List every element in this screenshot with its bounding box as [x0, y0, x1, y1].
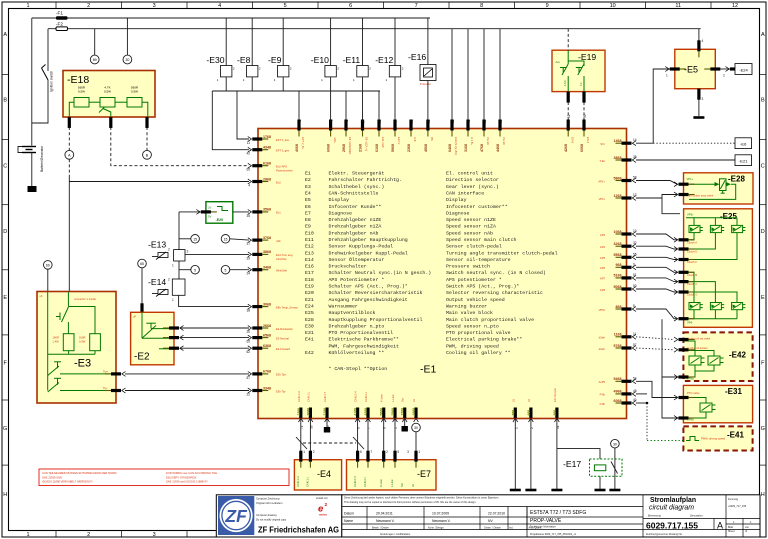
pin E1 top 4568	[426, 120, 429, 137]
wire E30 up to bus	[225, 18, 227, 66]
pin E1 bottom 4168	[355, 408, 360, 423]
svg-text:20.04.2011: 20.04.2011	[376, 512, 393, 516]
svg-text:20: 20	[246, 330, 250, 334]
svg-text:2868: 2868	[263, 177, 271, 181]
title block: main table	[342, 495, 760, 537]
node 30 circle (E17)	[611, 439, 620, 448]
wire bus drop to E1 pin 4068	[298, 91, 300, 129]
wire E1 to E25 pin	[636, 257, 677, 259]
pin E1 bottom 1668	[414, 408, 419, 423]
wire E1 CAN2L down to E7	[367, 417, 369, 460]
wire E1 to E25 pin	[636, 234, 677, 240]
svg-text:A: A	[761, 32, 765, 38]
svg-text:Drehwinkelgeber Kuppl-Pedal: Drehwinkelgeber Kuppl-Pedal	[329, 250, 408, 256]
svg-text:E30: E30	[305, 323, 314, 329]
svg-text:En2: En2	[276, 180, 281, 184]
svg-text:-F1: -F1	[56, 11, 63, 16]
svg-text:10.07.2009: 10.07.2009	[432, 512, 449, 516]
svg-text:5168: 5168	[614, 274, 622, 278]
wire E9 down to bus	[282, 77, 284, 91]
svg-text:Output vehicle speed: Output vehicle speed	[446, 297, 505, 303]
mechanical link between switches (dashed)	[303, 442, 356, 444]
pin E1 left 3868	[248, 252, 269, 257]
diagnose connector E7	[347, 460, 437, 490]
svg-text:CAN TEILNEHMER MÜSSEN ENTSPREC: CAN TEILNEHMER MÜSSEN ENTSPRECHEND DER N…	[42, 471, 117, 475]
display E5	[675, 49, 716, 88]
svg-text:4: 4	[394, 121, 398, 123]
svg-text:E25: E25	[305, 310, 314, 316]
svg-text:FOR WIRING use CAN ACCORDING T: FOR WIRING use CAN ACCORDING THE	[166, 471, 217, 475]
supply wires dropping to E1 top	[451, 29, 453, 129]
svg-text:Neumann V.: Neumann V.	[432, 519, 451, 523]
pin E1 top 3168	[466, 120, 469, 137]
wire E19 top dashed to bus	[567, 29, 569, 51]
speed sensor E30	[206, 55, 235, 82]
terminated stub pin	[404, 417, 406, 426]
pin E1 top 4468	[498, 120, 501, 137]
green wiring inside E18	[69, 102, 74, 116]
wire battery to ground	[31, 153, 33, 187]
svg-text:12: 12	[567, 114, 571, 118]
svg-text:0.9W: 0.9W	[79, 340, 86, 344]
node 69 circle above E3	[44, 261, 53, 270]
wire E1 to E25 pin	[636, 309, 677, 319]
svg-text:11: 11	[247, 141, 251, 145]
svg-text:-F2: -F2	[56, 22, 63, 27]
svg-text:E42: E42	[305, 350, 314, 356]
svg-text:1: 1	[303, 450, 305, 454]
svg-text:Drehzahlgeber n1ZA: Drehzahlgeber n1ZA	[329, 224, 382, 230]
svg-text:7: 7	[415, 3, 418, 9]
svg-text:3868: 3868	[614, 156, 622, 160]
svg-text:22: 22	[246, 393, 250, 397]
svg-text:11: 11	[633, 332, 637, 336]
svg-text:PROP-VALVE: PROP-VALVE	[530, 518, 562, 524]
svg-text:Tip-: Tip-	[103, 386, 108, 390]
svg-text:Schalter Reversiercharakterist: Schalter Reversiercharakteristik	[329, 290, 423, 296]
svg-text:5068: 5068	[614, 285, 622, 289]
svg-text:SCr: SCr	[600, 142, 605, 146]
svg-text:0.5W: 0.5W	[78, 90, 85, 94]
wires E1 4968/6068 to E41 via dotted link	[636, 393, 647, 395]
pin E18:2	[109, 117, 112, 128]
svg-text:6168: 6168	[375, 144, 379, 152]
wire E1 1268 to E28/E25	[636, 198, 680, 214]
switch Tip+	[54, 361, 61, 363]
svg-text:CAN 1 L: CAN 1 L	[306, 391, 310, 402]
svg-text:2: 2	[325, 502, 328, 508]
svg-text:kUeh: kUeh	[599, 336, 606, 340]
svg-text:Speed sensor main clutch: Speed sensor main clutch	[446, 237, 517, 243]
pin E1 top 5968	[393, 120, 396, 137]
pin E1 left 3068	[248, 304, 269, 309]
svg-text:T-Ex: T-Ex	[599, 159, 605, 163]
svg-text:-E21: -E21	[739, 159, 748, 164]
svg-text:1168: 1168	[614, 333, 622, 337]
wire E5 pin1 to E1 pin 1468	[653, 69, 675, 143]
wire E1 CAN2H down to E7	[357, 417, 359, 460]
resistor R1 560R	[74, 98, 89, 108]
svg-text:EFT V_B+: EFT V_B+	[301, 137, 305, 150]
pin E1 bottom 568	[555, 408, 560, 423]
svg-text:3: 3	[407, 450, 409, 454]
svg-text:VG 30: VG 30	[502, 137, 506, 145]
wire E14 to E1 pin 3068	[179, 295, 249, 306]
svg-text:5V: 5V	[208, 215, 211, 219]
svg-text:768: 768	[511, 410, 515, 416]
wire node 65 down into E2	[141, 268, 143, 313]
output vehicle speed E21	[735, 155, 752, 166]
svg-text:-E41: -E41	[727, 431, 744, 440]
svg-text:-E42: -E42	[729, 351, 746, 360]
svg-text:Potentiometer: Potentiometer	[276, 168, 293, 172]
svg-text:4: 4	[248, 184, 250, 188]
battery / generator G1	[18, 145, 44, 172]
svg-text:-E14: -E14	[148, 277, 166, 287]
svg-text:CAN 1 H: CAN 1 H	[297, 391, 301, 402]
svg-text:39: 39	[246, 256, 250, 260]
svg-text:1: 1	[172, 264, 174, 268]
svg-text:5468: 5468	[614, 377, 622, 381]
warning buzzer E24	[735, 64, 752, 75]
svg-text:4568: 4568	[424, 144, 428, 152]
svg-text:K-Line: K-Line	[379, 479, 383, 487]
wire bus drop to E1 pin 6068	[345, 91, 347, 129]
wire bus to E1 left pin 4348	[212, 91, 249, 150]
svg-text:568: 568	[553, 410, 557, 416]
svg-text:E10: E10	[305, 230, 314, 236]
svg-text:uF: uF	[133, 315, 136, 319]
svg-text:EST57A T72 / T73 SDFG: EST57A T72 / T73 SDFG	[530, 510, 586, 516]
svg-text:35: 35	[246, 214, 250, 218]
svg-text:4068: 4068	[295, 144, 299, 152]
svg-text:65: 65	[246, 340, 250, 344]
svg-text:Ignition switch: Ignition switch	[50, 71, 54, 92]
svg-text:PWM, Fahrgeschwindigkeit: PWM, Fahrgeschwindigkeit	[329, 343, 400, 349]
wire E1 5868 to E28	[636, 181, 677, 185]
svg-text:1.4W: 1.4W	[53, 340, 60, 344]
svg-text:Technische Information: Technische Information	[530, 526, 556, 529]
svg-text:2368: 2368	[297, 408, 301, 416]
resistor 910R	[90, 334, 101, 351]
svg-text:Original nicht verändern: Original nicht verändern	[256, 502, 283, 505]
svg-text:30: 30	[414, 426, 418, 430]
svg-text:30: 30	[125, 58, 129, 62]
svg-text:11: 11	[675, 3, 681, 9]
svg-text:B: B	[3, 98, 7, 104]
svg-text:Zeichnungsnummer Drawing No: Zeichnungsnummer Drawing No.	[646, 533, 683, 536]
pin E1 bottom 768	[513, 408, 518, 423]
svg-text:868: 868	[616, 305, 622, 309]
svg-text:30: 30	[378, 119, 382, 123]
pin E1 right 1268	[616, 196, 637, 201]
svg-text:5768: 5768	[614, 344, 622, 348]
svg-text:2: 2	[87, 532, 90, 538]
svg-text:-E18: -E18	[67, 74, 89, 86]
wire E13 to E1 pin 3868	[185, 253, 249, 255]
svg-text:E12: E12	[305, 244, 314, 250]
wire node 69 into E3	[47, 269, 49, 291]
svg-text:SAE J1939 and ISO/DIS 11898!!!: SAE J1939 and ISO/DIS 11898!!!!!!	[166, 480, 208, 484]
pin E1 right 5168	[616, 276, 637, 281]
svg-text:5: 5	[397, 450, 399, 454]
svg-text:23: 23	[483, 119, 487, 123]
svg-text:L-Line: L-Line	[391, 394, 395, 402]
distribution bus under sensors	[212, 90, 380, 92]
svg-text:2: 2	[168, 248, 170, 252]
pin E1 bottom 1568	[402, 408, 407, 423]
svg-text:ISO/DIS 11898 VERKABELT WERDEN: ISO/DIS 11898 VERKABELT WERDEN!!!!!	[42, 480, 93, 484]
svg-text:12: 12	[732, 3, 738, 9]
svg-text:-E7: -E7	[417, 469, 431, 479]
svg-text:31: 31	[412, 399, 416, 402]
svg-text:-E25: -E25	[720, 212, 737, 221]
svg-text:C: C	[761, 163, 765, 169]
svg-text:41: 41	[330, 119, 334, 123]
wire E3 Tip+ to E1 pin 6768	[105, 372, 126, 377]
svg-text:Clutch A: Clutch A	[687, 240, 697, 244]
svg-text:30: 30	[613, 442, 617, 446]
svg-text:E19: E19	[305, 284, 314, 290]
svg-text:Direction selector: Direction selector	[446, 177, 499, 183]
node circles row 1 (nAb sensor)	[179, 235, 249, 244]
svg-text:E9 n1ZA.n1: E9 n1ZA.n1	[365, 137, 369, 152]
svg-text:Scr: Scr	[400, 483, 404, 487]
pin E1 top 6168	[377, 120, 380, 137]
selector reversing characteristic E20	[206, 202, 233, 224]
svg-text:E31: E31	[305, 330, 314, 336]
svg-text:67: 67	[246, 376, 250, 380]
svg-text:Drehzahlgeber n_pto: Drehzahlgeber n_pto	[329, 323, 385, 329]
pin E1 left 2668	[248, 326, 269, 331]
svg-text:APS Potentiometer *: APS Potentiometer *	[329, 277, 385, 283]
svg-text:Clutch B: Clutch B	[687, 273, 697, 277]
svg-text:2968: 2968	[342, 144, 346, 152]
CAN wiring warning note	[39, 469, 289, 486]
svg-text:Ausgang Fahrgeschwindigkeit: Ausgang Fahrgeschwindigkeit	[329, 297, 408, 303]
svg-text:40: 40	[298, 119, 302, 123]
svg-text:E7: E7	[305, 210, 311, 216]
svg-text:1268: 1268	[614, 194, 622, 198]
svg-text:3468: 3468	[263, 266, 271, 270]
pin E1 bottom 5668	[381, 408, 386, 423]
svg-text:3168: 3168	[464, 144, 468, 152]
neutral switch E17	[557, 449, 600, 459]
svg-text:WinkGeb: WinkGeb	[276, 269, 288, 273]
svg-text:5: 5	[225, 268, 227, 272]
ground (E5)	[693, 117, 704, 119]
svg-text:32: 32	[633, 241, 637, 245]
svg-text:Aut: Aut	[556, 60, 560, 64]
svg-text:Warning buzzer: Warning buzzer	[446, 304, 487, 310]
svg-text:E16 (S.1)(+5V): E16 (S.1)(+5V)	[454, 137, 458, 155]
pin E1 top 4268	[567, 120, 570, 137]
svg-text:2: 2	[386, 450, 388, 454]
svg-text:Turning angle transmitter clut: Turning angle transmitter clutch-pedal	[446, 250, 558, 256]
wire E18 pin1 to node A	[68, 127, 70, 150]
pin E1 right 968	[616, 265, 637, 270]
CAN interface E4	[294, 460, 341, 490]
svg-text:-E8: -E8	[237, 55, 251, 65]
wire sensor down to E1	[394, 77, 396, 129]
wire E16 down to E1	[427, 81, 429, 129]
svg-text:2068: 2068	[306, 408, 310, 416]
node A circle	[65, 150, 74, 159]
wire E1 CAN1L down to E4	[309, 417, 311, 460]
svg-text:Sheet: Sheet	[728, 530, 735, 533]
svg-text:4-6.5: 4-6.5	[564, 80, 567, 86]
svg-text:43: 43	[467, 119, 471, 123]
svg-text:E18: E18	[305, 277, 314, 283]
svg-text:Tip+: Tip+	[103, 370, 109, 374]
switch across CAN1 pair	[296, 437, 307, 449]
svg-text:6468: 6468	[448, 144, 452, 152]
wire E10 up to bus	[330, 18, 332, 66]
svg-text:Hauptventilblock: Hauptventilblock	[329, 310, 376, 316]
svg-text:Batterie/Generator: Batterie/Generator	[40, 145, 44, 172]
svg-text:2168: 2168	[359, 144, 363, 152]
svg-text:-E31: -E31	[725, 387, 742, 396]
svg-text:2368: 2368	[407, 144, 411, 152]
vertical wire E20/E13/E14 chain	[178, 212, 180, 279]
wire E20 left	[179, 211, 206, 213]
svg-text:Diagnose: Diagnose	[446, 210, 470, 216]
svg-text:2: 2	[313, 450, 315, 454]
svg-text:24: 24	[246, 272, 250, 276]
svg-text:PTO Proportionalventil: PTO Proportionalventil	[329, 330, 394, 336]
svg-text:Speed sensor n1ZE: Speed sensor n1ZE	[446, 217, 496, 223]
svg-text:Cooling oil gallery **: Cooling oil gallery **	[446, 350, 511, 356]
svg-text:E2-Neutral: E2-Neutral	[276, 336, 289, 340]
svg-text:-E28: -E28	[728, 175, 745, 184]
svg-text:VG 30: VG 30	[486, 137, 490, 145]
wire battery feed down left	[31, 18, 33, 146]
svg-text:Switch APS (Act., Prog.)*: Switch APS (Act., Prog.)*	[446, 284, 519, 290]
svg-text:Elektr. Steuergerät: Elektr. Steuergerät	[329, 171, 385, 177]
clutch B/C/G pins to valves row 2	[686, 272, 694, 302]
svg-text:Änderungen / modifications: Änderungen / modifications	[380, 533, 411, 536]
svg-text:1068: 1068	[614, 230, 622, 234]
pin E1 left 3568	[248, 210, 269, 215]
svg-text:1: 1	[418, 450, 420, 454]
pin E1 right 6068	[616, 401, 637, 406]
svg-text:E9: E9	[305, 224, 311, 230]
svg-text:Sensor Kupplungs-Pedal: Sensor Kupplungs-Pedal	[329, 244, 394, 250]
wire E1 pin 1468 to E6 (dotted)	[636, 142, 653, 144]
wire E19 pin1 dashed to E1	[567, 102, 569, 129]
svg-text:4348: 4348	[263, 146, 271, 150]
speed sensor E10	[311, 55, 340, 82]
svg-text:AP4: AP4	[600, 245, 606, 249]
svg-text:4568: 4568	[364, 408, 368, 416]
svg-text:nAb: nAb	[276, 239, 281, 243]
pin E1 right 868	[616, 307, 637, 312]
svg-text:69: 69	[93, 58, 97, 62]
svg-text:Scr: Scr	[401, 398, 405, 402]
wire E1 pin 3868 to E21	[636, 159, 735, 161]
svg-text:series: series	[319, 513, 328, 517]
pin E1 right 5468	[616, 379, 637, 384]
svg-text:Kennung: Kennung	[728, 498, 739, 501]
svg-text:kUeh: kUeh	[599, 347, 606, 351]
svg-text:CAN 1 H: CAN 1 H	[296, 476, 300, 487]
svg-text:Clutch G: Clutch G	[687, 293, 697, 297]
svg-text:-E6: -E6	[740, 142, 747, 147]
svg-text:circuit diagram: circuit diagram	[649, 503, 694, 512]
svg-text:4268: 4268	[564, 144, 568, 152]
svg-text:8: 8	[480, 3, 483, 9]
svg-text:PTO valve: PTO valve	[687, 391, 700, 395]
wire E1 to E25 pin	[636, 289, 677, 292]
svg-text:E41: E41	[305, 337, 314, 343]
svg-text:1668: 1668	[412, 408, 416, 416]
svg-text:37: 37	[246, 242, 250, 246]
svg-text:AP7: AP7	[600, 277, 606, 281]
svg-text:5668: 5668	[380, 408, 384, 416]
svg-text:of: of	[745, 530, 747, 533]
svg-text:A: A	[3, 32, 7, 38]
wire junction to E1 pin 2868 and down to E3	[68, 177, 70, 292]
svg-text:Projektname 6029_717_155_PDA: Projektname 6029_717_155_PDA301_-A	[530, 533, 576, 536]
wire bus drop to E1 pin 2968	[378, 91, 380, 129]
svg-text:30: 30	[499, 119, 503, 123]
svg-text:65: 65	[140, 262, 144, 266]
svg-text:Clutch D: Clutch D	[687, 250, 697, 254]
wire sensor down to E1	[362, 77, 364, 129]
pin E1 left 4348	[248, 147, 269, 152]
wire E1 to E25 pin	[636, 267, 677, 272]
svg-text:0.5W: 0.5W	[131, 90, 138, 94]
speed sensor E9	[268, 55, 292, 82]
svg-text:3868: 3868	[263, 250, 271, 254]
pin E1 left 6768	[248, 372, 269, 377]
ground symbols	[510, 489, 521, 491]
svg-text:22.07.2010: 22.07.2010	[488, 512, 505, 516]
svg-text:AxP9: AxP9	[599, 380, 606, 384]
pin E1 right 5868	[616, 178, 637, 183]
resistor R2 4.7K	[100, 98, 115, 108]
svg-text:Computer Zeichnung: Computer Zeichnung	[256, 498, 280, 501]
svg-text:1: 1	[172, 298, 174, 302]
svg-text:E3h Tip+: E3h Tip+	[276, 373, 287, 377]
wire E5 pin4 from bus	[698, 29, 700, 50]
svg-text:Electrical parking brake**: Electrical parking brake**	[446, 337, 522, 343]
svg-text:E20: E20	[305, 290, 314, 296]
svg-text:-E24: -E24	[739, 68, 748, 73]
svg-text:4: 4	[702, 39, 704, 43]
svg-text:E2: E2	[305, 177, 311, 183]
svg-text:40: 40	[633, 398, 637, 402]
svg-text:2V: 2V	[208, 206, 211, 210]
svg-text:E11: E11	[305, 237, 314, 243]
pin E1 top 2368	[409, 120, 412, 137]
svg-text:-E9: -E9	[268, 55, 282, 65]
svg-text:58: 58	[633, 176, 637, 180]
svg-text:SAE J1939 UND: SAE J1939 UND	[42, 475, 62, 479]
wire E30 down to bus	[225, 77, 227, 91]
svg-text:CAN 2 L: CAN 2 L	[363, 476, 367, 487]
svg-text:E17-N sync: E17-N sync	[553, 387, 557, 402]
svg-text:Schalter Neutral sync.(in N ge: Schalter Neutral sync.(in N gesch.)	[329, 270, 432, 276]
svg-text:EFT h_gen: EFT h_gen	[276, 149, 290, 153]
svg-text:160R: 160R	[53, 336, 59, 340]
svg-text:AP8: AP8	[600, 288, 606, 292]
pin E1 left 6168	[248, 163, 269, 168]
oil temperature sensor E14	[148, 277, 185, 302]
svg-text:31: 31	[411, 484, 415, 487]
svg-text:10: 10	[610, 3, 616, 9]
svg-text:PTO proportional valve: PTO proportional valve	[446, 330, 511, 336]
